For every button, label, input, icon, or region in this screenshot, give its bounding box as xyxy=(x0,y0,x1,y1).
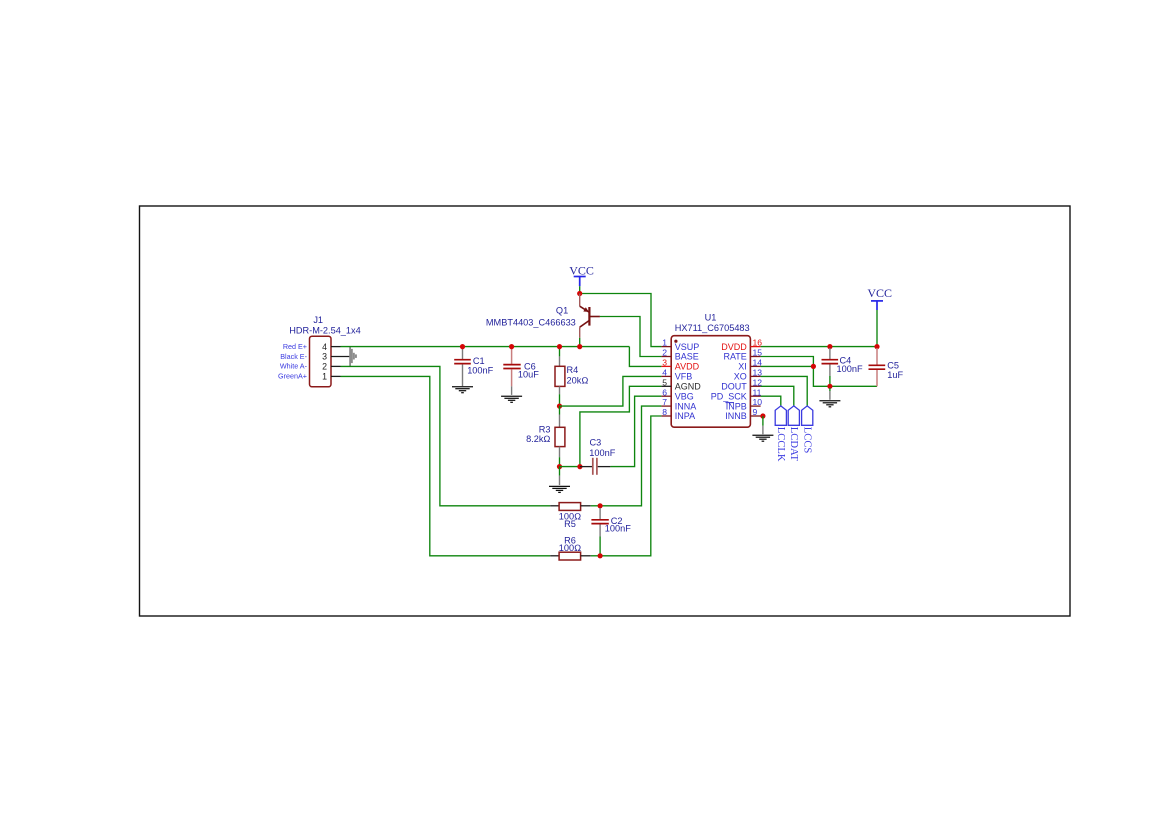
flag LCCS xyxy=(802,406,813,454)
svg-text:10uF: 10uF xyxy=(518,369,539,379)
junction R4 top xyxy=(557,344,562,349)
pin 6 VBG xyxy=(661,387,693,401)
capacitor C3 xyxy=(580,437,616,474)
svg-text:White A-: White A- xyxy=(280,362,308,371)
capacitor C4 xyxy=(822,348,863,386)
svg-text:HDR-M-2.54_1x4: HDR-M-2.54_1x4 xyxy=(289,325,360,335)
wire GreenA+ to R6 xyxy=(341,376,551,555)
wire E+ bus xyxy=(341,346,630,348)
svg-text:5: 5 xyxy=(662,377,667,387)
svg-text:C3: C3 xyxy=(590,437,602,447)
svg-text:8: 8 xyxy=(662,407,667,417)
pin 14 XI xyxy=(738,358,762,372)
junction C4 top xyxy=(827,344,832,349)
wire AVDD drop xyxy=(629,347,661,367)
wire XI xyxy=(761,365,814,367)
junction C3 left xyxy=(577,464,582,469)
wire AGND path xyxy=(580,386,662,466)
svg-text:VFB: VFB xyxy=(675,372,693,382)
pin 1 VSUP xyxy=(661,338,699,352)
junction VCC node xyxy=(577,291,582,296)
pin 9 INNB xyxy=(725,407,760,421)
svg-text:9: 9 xyxy=(753,407,758,417)
svg-text:Red E+: Red E+ xyxy=(283,342,307,351)
flag LCDAT xyxy=(788,406,799,462)
svg-text:GreenA+: GreenA+ xyxy=(278,372,307,381)
svg-text:100nF: 100nF xyxy=(837,364,863,374)
ground R3 xyxy=(549,486,570,492)
svg-text:Black E-: Black E- xyxy=(280,352,307,361)
svg-text:1: 1 xyxy=(662,338,667,348)
wire R3 ground stem xyxy=(559,467,561,476)
pin 3 AVDD xyxy=(661,358,699,372)
wire Q1 base to U1 xyxy=(600,317,662,357)
svg-text:1: 1 xyxy=(322,372,327,382)
svg-text:8.2kΩ: 8.2kΩ xyxy=(526,434,550,444)
ground INNB xyxy=(752,435,773,441)
svg-text:AGND: AGND xyxy=(675,382,702,392)
svg-text:LCDAT: LCDAT xyxy=(788,427,799,462)
wire INPA xyxy=(600,416,661,556)
ground C4 xyxy=(819,401,840,407)
pin 8 INPA xyxy=(661,407,695,421)
svg-text:MMBT4403_C466633: MMBT4403_C466633 xyxy=(486,317,576,327)
wire VCC to VSUP xyxy=(580,294,662,347)
pin 16 DVDD xyxy=(721,338,762,352)
svg-text:10: 10 xyxy=(753,397,763,407)
capacitor C6 xyxy=(503,348,539,395)
svg-text:2: 2 xyxy=(662,348,667,358)
ground C6 xyxy=(501,396,522,402)
wire C4 ground stem xyxy=(829,388,831,391)
svg-text:VBG: VBG xyxy=(675,391,694,401)
svg-text:VCC: VCC xyxy=(569,264,594,278)
capacitor C2 xyxy=(591,508,631,556)
pin 12 DOUT xyxy=(721,377,762,391)
junction pin 9 xyxy=(760,413,765,418)
svg-text:20kΩ: 20kΩ xyxy=(567,375,589,385)
wire VFB xyxy=(560,376,662,406)
svg-text:RATE: RATE xyxy=(723,352,746,362)
svg-text:100Ω: 100Ω xyxy=(559,543,581,553)
resistor R4 xyxy=(555,347,588,407)
wire White A- to R5 xyxy=(341,366,551,505)
flag LCCLK xyxy=(775,406,786,462)
svg-text:INNB: INNB xyxy=(725,411,747,421)
svg-text:C1: C1 xyxy=(473,356,485,366)
svg-text:XO: XO xyxy=(734,372,747,382)
svg-text:100nF: 100nF xyxy=(467,366,493,376)
wire INNA xyxy=(600,406,661,506)
pin 13 XO xyxy=(734,368,762,382)
pin 5 AGND xyxy=(661,377,701,391)
wire DOUT to LCDAT xyxy=(761,386,794,406)
junction XI xyxy=(811,364,816,369)
resistor R6 xyxy=(550,536,600,560)
svg-text:Q1: Q1 xyxy=(556,305,568,315)
pin 11 PD_SCK xyxy=(711,387,762,401)
svg-text:LCCLK: LCCLK xyxy=(775,427,786,462)
junction C1 top xyxy=(460,344,465,349)
IC U1 xyxy=(671,313,750,428)
svg-text:4: 4 xyxy=(322,342,327,352)
svg-text:XI: XI xyxy=(738,362,747,372)
junction R3 bottom xyxy=(557,464,562,469)
pin 2 BASE xyxy=(661,348,698,362)
svg-text:DOUT: DOUT xyxy=(721,382,747,392)
junction R4 bottom xyxy=(557,404,562,409)
resistor R3 xyxy=(526,406,565,467)
pin 4 VFB xyxy=(661,368,692,382)
svg-text:HX711_C6705483: HX711_C6705483 xyxy=(675,323,750,333)
svg-text:100nF: 100nF xyxy=(589,448,615,458)
svg-text:INNA: INNA xyxy=(675,401,697,411)
capacitor C5 xyxy=(869,348,904,386)
svg-text:VSUP: VSUP xyxy=(675,342,700,352)
connector J1 xyxy=(289,315,360,387)
wire DVDD xyxy=(761,346,877,348)
svg-text:J1: J1 xyxy=(313,315,323,325)
svg-text:DVDD: DVDD xyxy=(721,342,747,352)
svg-text:R4: R4 xyxy=(567,365,579,375)
pin 7 INNA xyxy=(661,397,696,411)
svg-text:R5: R5 xyxy=(564,519,576,529)
svg-text:AVDD: AVDD xyxy=(675,362,700,372)
svg-text:LCCS: LCCS xyxy=(802,427,813,454)
power VCC (top) xyxy=(569,264,594,287)
wire VCC stem xyxy=(579,286,581,293)
svg-text:BASE: BASE xyxy=(675,352,699,362)
junction C4 bottom xyxy=(827,384,832,389)
junction C5 top xyxy=(874,344,879,349)
svg-text:2: 2 xyxy=(322,362,327,372)
power VCC (right) xyxy=(867,286,892,310)
svg-text:4: 4 xyxy=(662,368,667,378)
svg-text:6: 6 xyxy=(662,387,667,397)
svg-text:U1: U1 xyxy=(705,313,717,323)
svg-text:1uF: 1uF xyxy=(887,370,903,380)
svg-text:3: 3 xyxy=(662,358,667,368)
svg-text:11: 11 xyxy=(753,387,762,397)
wire R3 to C3 xyxy=(560,466,580,468)
transistor Q1 xyxy=(486,294,600,338)
sheet border xyxy=(140,206,1071,616)
junction R5 right xyxy=(598,503,603,508)
junction C6 top xyxy=(509,344,514,349)
wire pin9 ground stem xyxy=(762,416,764,426)
capacitor C1 xyxy=(454,348,493,386)
svg-text:100nF: 100nF xyxy=(605,524,631,534)
pin 15 RATE xyxy=(723,348,762,362)
svg-text:3: 3 xyxy=(322,352,327,362)
resistor R5 xyxy=(550,503,600,529)
wire C3 to VBG xyxy=(610,396,661,466)
ERC marker arrow xyxy=(349,347,357,366)
ground C1 xyxy=(452,387,473,393)
junction Q1 collector xyxy=(577,344,582,349)
svg-text:VCC: VCC xyxy=(867,286,892,300)
pin 10 INPB xyxy=(726,397,763,411)
wire Q1 collector xyxy=(579,338,581,347)
junction R6 right xyxy=(598,553,603,558)
wire PD_SCK to LCCLK xyxy=(761,396,781,406)
svg-text:7: 7 xyxy=(662,397,667,407)
wire XO to LCCS xyxy=(761,376,808,406)
svg-text:INPA: INPA xyxy=(675,411,695,421)
wire RATE xyxy=(761,357,877,387)
svg-text:PD_SCK: PD_SCK xyxy=(711,391,747,401)
wire VCC2 stem xyxy=(876,310,878,347)
